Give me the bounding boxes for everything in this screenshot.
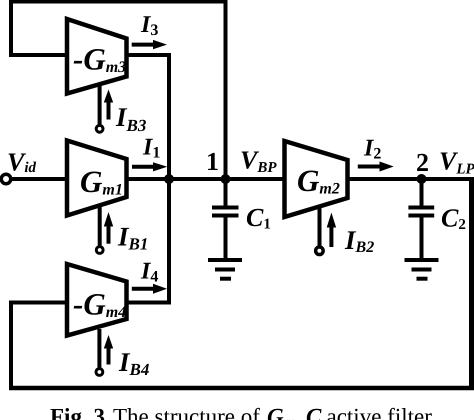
bias arrow IB4 [104,335,113,365]
wire -Gm4 output [126,301,172,305]
svg-text:IB1: IB1 [117,222,148,254]
bias arrow IB2 [327,213,336,248]
svg-text:C1: C1 [246,203,271,233]
wire vertical joining Gm3 out, node 1 rail, Gm4 out [167,53,171,305]
OTA -Gm4 body [67,264,127,336]
svg-text:-Gm4: -Gm4 [73,287,126,322]
svg-text:I3: I3 [140,12,158,39]
wire C2 lower stem [420,217,424,259]
svg-text:VLP: VLP [439,147,474,178]
junction dot node 1 [221,174,231,184]
bias stem and terminal Gm2 [316,207,324,255]
current arrow I2 [358,162,394,172]
OTA Gm1 body [67,141,127,216]
svg-text:I4: I4 [140,259,158,286]
wire top feedback horizontal [9,0,228,4]
capacitor C1 plates [212,208,239,216]
current arrow I1 [132,162,167,171]
wire bottom feedback horizontal [9,386,474,391]
capacitor C2 plates [408,208,434,216]
svg-text:IB3: IB3 [115,102,147,135]
junction dot node 2 [417,174,427,184]
wire -Gm4 input [9,301,68,305]
svg-text:I2: I2 [363,136,381,163]
svg-text:-Gm3: -Gm3 [73,42,126,77]
input terminal Vid circle [1,174,11,184]
wire -Gm3 input [9,53,68,57]
ground for C1 [208,260,242,279]
wire node 1 rail [126,177,286,181]
svg-text:C2: C2 [441,204,466,234]
wire right feedback vertical [469,177,474,390]
bias stem and terminal -Gm3 [96,83,103,132]
wire bottom-left vertical [9,301,13,391]
wire C1 lower stem [224,217,228,259]
svg-text:1: 1 [206,147,219,176]
wire node 2 rail [347,177,474,181]
wire -Gm3 output [126,53,172,57]
bias stem and terminal -Gm4 [96,329,103,375]
current arrow I3 [132,40,167,49]
current arrow I4 [132,284,167,294]
junction dot at Gm outputs vertical [164,174,174,184]
svg-text:IB4: IB4 [118,347,149,379]
wire C2 upper stem [420,179,424,206]
wire Vid to Gm1 input [9,177,68,181]
OTA -Gm3 body [67,19,127,94]
ground for C2 [405,260,439,279]
svg-text:Vid: Vid [7,148,37,177]
bias stem and terminal Gm1 [96,207,103,254]
svg-text:IB2: IB2 [344,225,374,256]
svg-text:VBP: VBP [240,146,277,177]
svg-text:Gm1: Gm1 [80,164,123,199]
svg-text:I1: I1 [142,135,160,162]
svg-text:Fig. 3The structure ofGm-Cacti: Fig. 3The structure ofGm-Cactive filter [50,404,432,420]
bias arrow IB3 [104,90,113,120]
svg-text:Gm2: Gm2 [297,163,340,198]
wire feedback vertical at node 1 / C1 upper stem [224,0,228,206]
wire top-left vertical [9,0,13,57]
OTA Gm2 body [285,141,348,217]
svg-text:2: 2 [416,148,429,177]
bias arrow IB1 [104,212,113,244]
